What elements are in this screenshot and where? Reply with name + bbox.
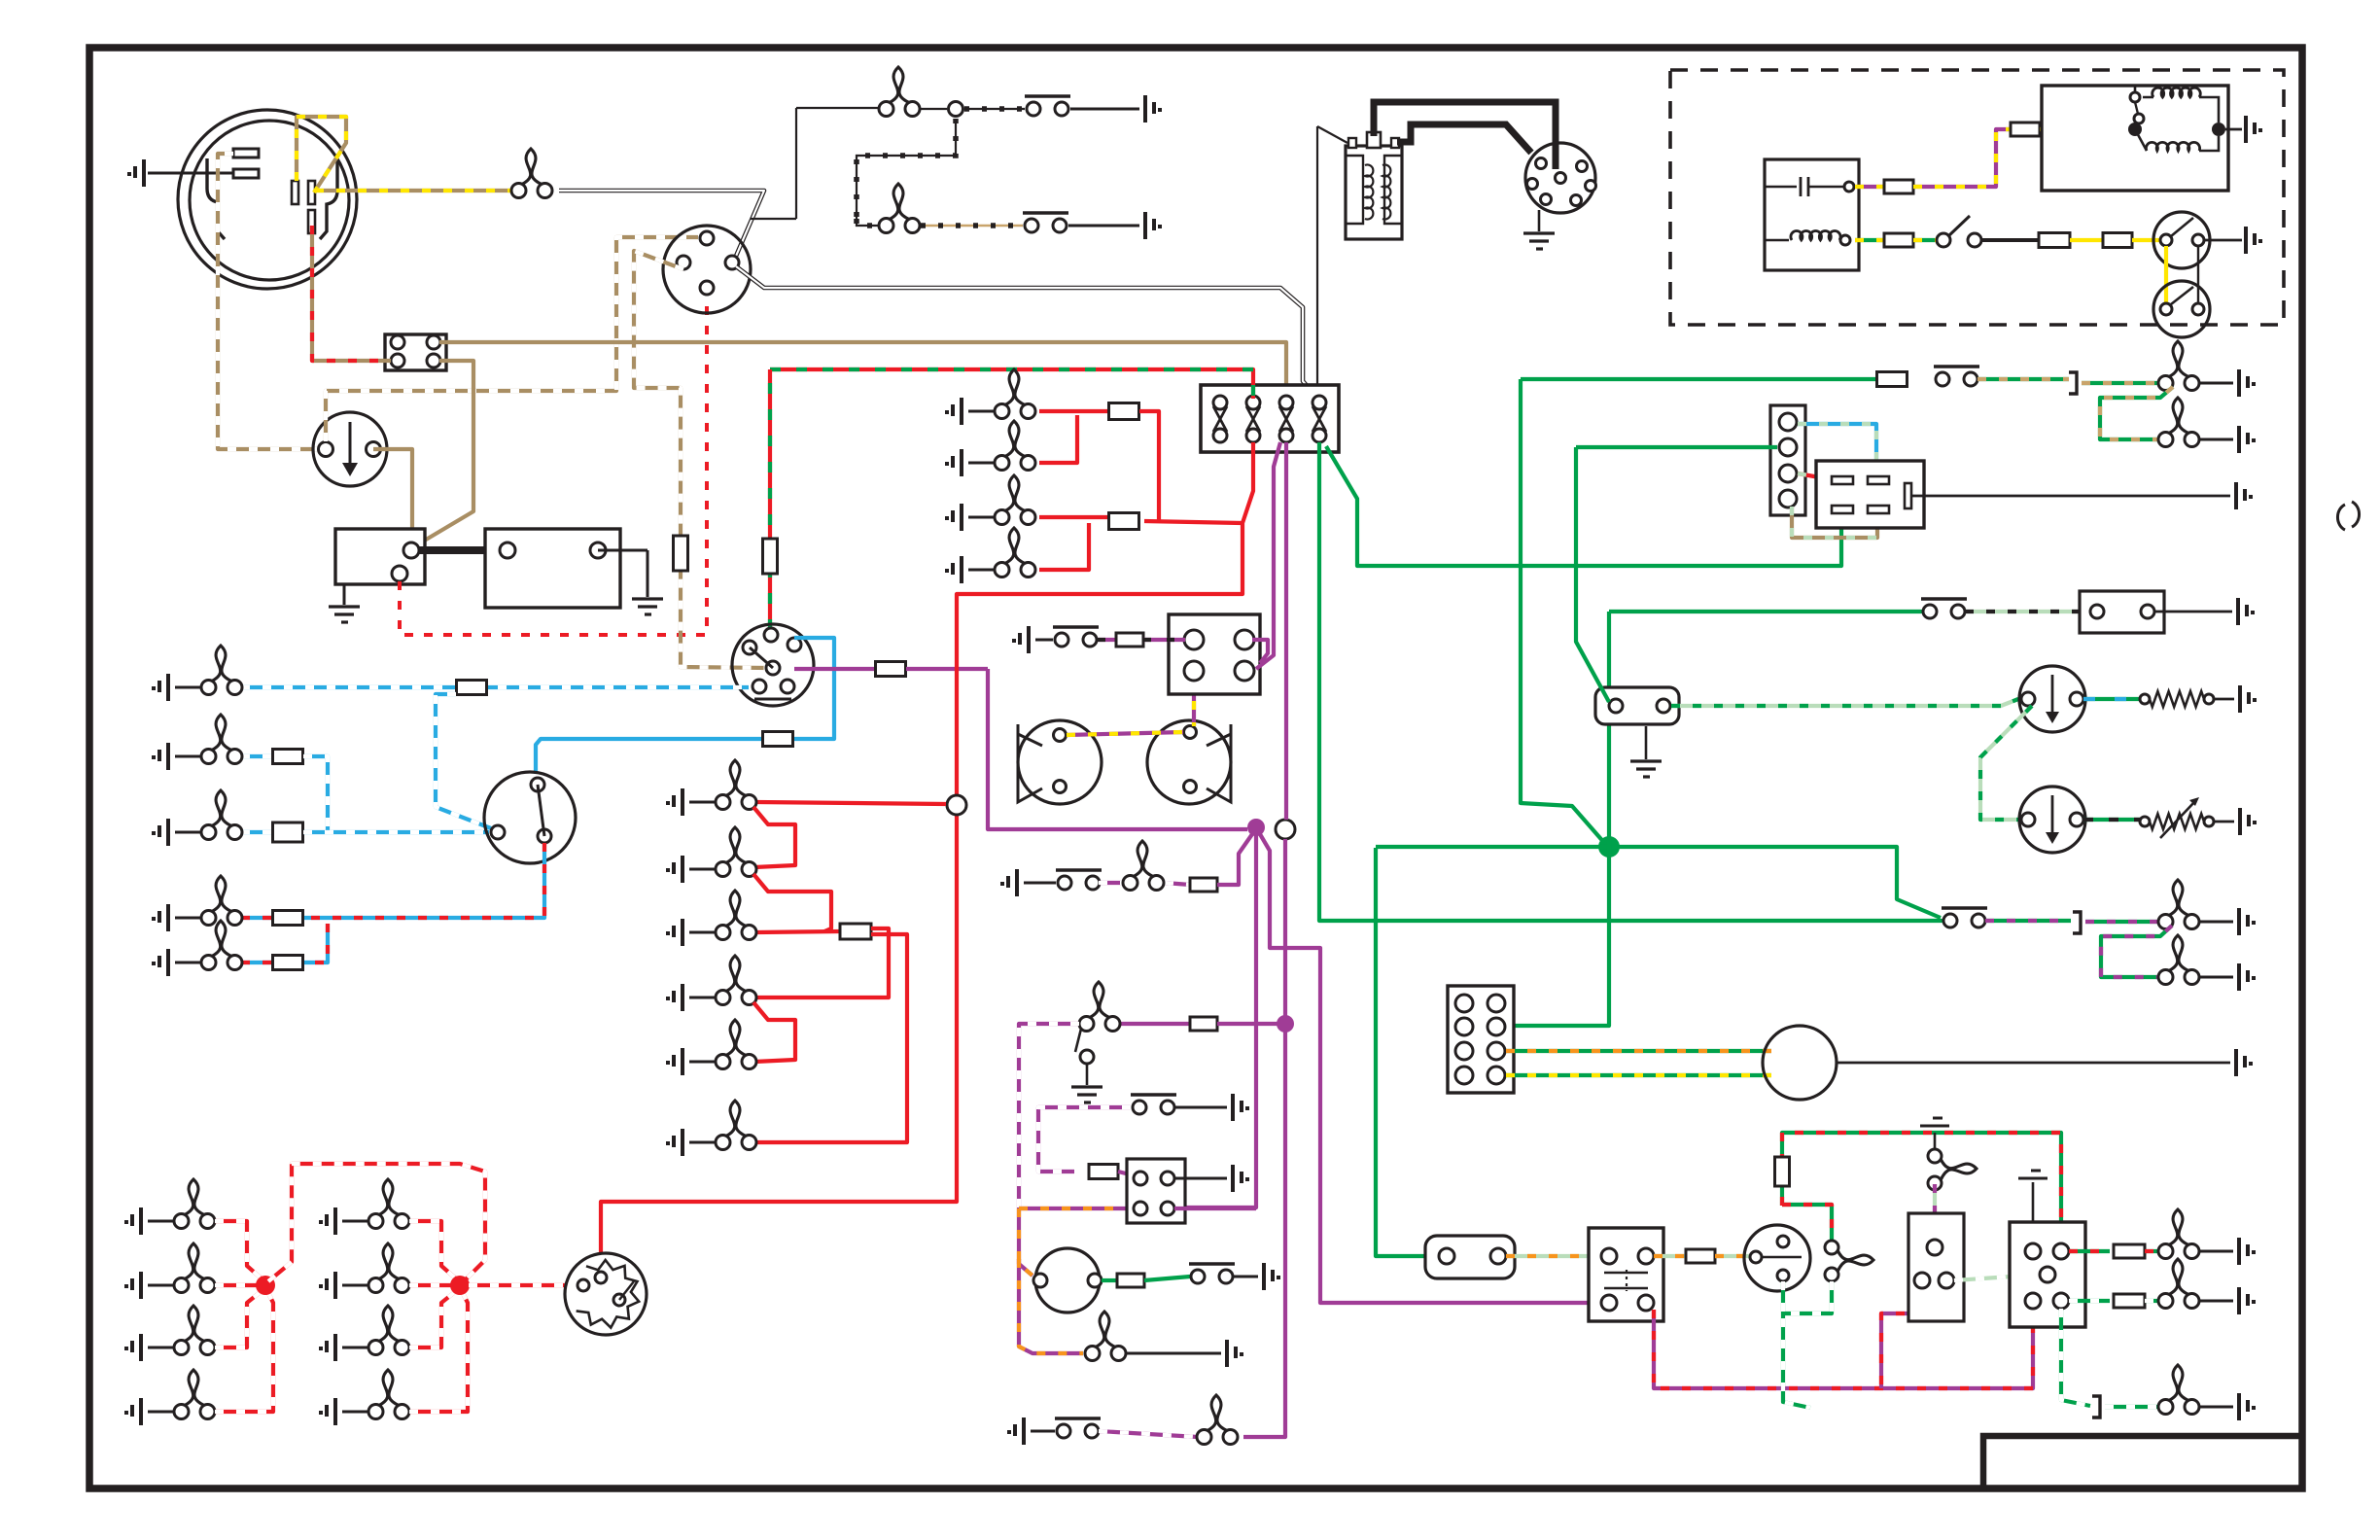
panel lamp 2 [716, 827, 756, 877]
flasher terminal left [577, 1279, 589, 1291]
wire P horn box jumper [1252, 640, 1268, 663]
wire R panel lamp 3 [756, 931, 840, 932]
warning lamp bottom [1085, 1312, 1126, 1361]
fuse horn feed [876, 662, 906, 677]
fuel tank unit terminals [2140, 694, 2150, 704]
connector pin 4 [427, 354, 440, 367]
ground flasher lamp group LH front LH [124, 1207, 141, 1235]
stop lamp switch body [1425, 1236, 1515, 1278]
wire G brake switch drop [1376, 848, 1425, 1256]
ground overdrive relay [2246, 116, 2262, 143]
horn RH [1207, 724, 1231, 802]
white wire coil lead bend [1314, 387, 1317, 397]
ground battery [632, 599, 663, 614]
flasher lamp group RH front LH [368, 1179, 409, 1229]
solenoid terminal main [403, 542, 419, 558]
ground flasher lamp group RH rear LH [319, 1272, 335, 1299]
wire P wiper switch to trunk [1174, 1207, 1256, 1210]
wire NY to ignition warning lamp [315, 189, 518, 192]
boot lamp switch [1055, 1418, 1101, 1438]
wire G fuse to switch [1144, 1277, 1190, 1280]
wire Y od [2070, 238, 2103, 242]
stop lamp RH [995, 421, 1035, 471]
wire PW map light branch [1038, 1107, 1131, 1172]
wire PW interior switch to lamp [1099, 881, 1124, 885]
temperature gauge body [2019, 787, 2085, 853]
connector pin 1 [391, 335, 404, 349]
ground distributor [1523, 233, 1555, 249]
battery earth lead [598, 549, 647, 552]
connector pin 3 [391, 354, 404, 367]
battery earth stem [647, 550, 649, 597]
dynamo brush bar 1 [292, 181, 298, 204]
wire B oil lamp to switch [964, 108, 1025, 110]
fuse side lamps [457, 681, 487, 695]
lead panel lamp 5 [689, 1061, 716, 1064]
flasher relay terminal [1832, 506, 1853, 513]
wire NW ignition to lighting switch [634, 251, 767, 668]
white wire warning lamp to ignition switch [559, 191, 764, 261]
fuel pump contacts [1934, 367, 1979, 386]
wire W tap to oil lamp [751, 218, 796, 220]
fuse overdrive 1 [1884, 180, 1913, 193]
lead headlamp dip RH [175, 962, 201, 964]
stop relay pins [1601, 1248, 1617, 1264]
dip switch terminal top [531, 778, 544, 791]
ammeter terminal left [319, 442, 333, 457]
temp sender resistor [2150, 814, 2204, 829]
fuse headlamp RH [273, 822, 303, 842]
ground panel lamp 4 [666, 984, 682, 1011]
od upper terminals [2160, 234, 2172, 246]
flasher lamp group LH front LH [174, 1179, 215, 1229]
wire P fuse to wiper switch [1118, 1172, 1130, 1174]
wire R stop lamp RH [1039, 415, 1077, 463]
connector block right [1770, 405, 1805, 515]
solenoid terminal switch [392, 566, 407, 581]
stabilizer terminals [1609, 699, 1623, 713]
wire RW flasher lamp group RH row3 [409, 1291, 456, 1347]
connector pilot lamps [2073, 912, 2081, 933]
distributor terminal 7 [1556, 173, 1566, 184]
gearbox switch top lead [1765, 186, 1797, 189]
oil gauge switch [1921, 599, 1967, 618]
wire P courtesy feed [1120, 1022, 1190, 1026]
ignition switch terminal left [677, 256, 690, 269]
wire R panel lamp 2-3 chain [753, 874, 831, 931]
dir switch earth stem [2032, 1182, 2035, 1222]
flasher lamp group RH front RH [368, 1306, 409, 1355]
ground wiper switch [1233, 1165, 1249, 1192]
gear switch box [1908, 1213, 1964, 1321]
od unit link [2197, 247, 2199, 302]
interior lamp switch [1056, 870, 1102, 890]
wire Y od2 [2132, 238, 2160, 242]
wire GW fuse to lamp2 [2145, 1299, 2160, 1303]
ammeter terminal right [367, 442, 381, 457]
gearbox switch bottom lead [1765, 239, 1789, 242]
wire GR fuse to lamp [2145, 1249, 2160, 1253]
wire NB fuel lamp to switch [921, 225, 1023, 227]
lead reverse lamp [2199, 1406, 2233, 1409]
lead tail lamp LH [968, 516, 995, 519]
fuse horn [1116, 633, 1143, 647]
ground flasher lamp group LH front RH [124, 1334, 141, 1361]
horn LH terminals [1054, 729, 1067, 742]
junction snap connector [949, 102, 963, 117]
oil pressure switch [1025, 96, 1070, 116]
ground bottom switch [1007, 1417, 1024, 1445]
fuse low beam LH [273, 911, 303, 926]
flasher relay terminal [1868, 476, 1889, 484]
wire P interior lamp feed [1165, 883, 1190, 885]
title block notch [1983, 1436, 2299, 1491]
headlamp LH dip [201, 876, 242, 926]
wire R fuse1 out [1139, 411, 1159, 521]
connector pin 2 [427, 335, 440, 349]
flasher lamp group RH rear LH [368, 1243, 409, 1293]
lead map switch earth [1175, 1106, 1227, 1109]
wire R tail lamp RH [1039, 523, 1089, 570]
ground warning lamp [1227, 1340, 1243, 1367]
wire W oil lamp lead [796, 107, 886, 109]
indicator lamp 2 [2158, 1259, 2199, 1309]
lead oil unit earth [2154, 611, 2232, 613]
courtesy lamp [1079, 982, 1120, 1032]
wire GP bracket to lamp [2085, 920, 2160, 924]
reverse lamp [2158, 1365, 2199, 1415]
wire PB horn button to fuse [1098, 638, 1116, 642]
ground starter switch [1264, 1263, 1280, 1290]
dynamo body inner [190, 121, 349, 280]
ground panel switch [1145, 212, 1162, 239]
wiper motor body [1763, 1026, 1837, 1100]
wire UW headlamp row3 to dip switch [303, 830, 489, 834]
ground flasher lamp group RH front RH [319, 1334, 335, 1361]
junction green [1598, 836, 1620, 857]
stop relay box [1589, 1228, 1663, 1321]
wire NW ammeter to ignition switch [326, 237, 698, 441]
fuel gauge needle [2051, 675, 2054, 716]
door switch contact [1080, 1050, 1094, 1064]
lead flasher lamp group RH rear LH [342, 1284, 368, 1287]
wire PY fuse to relay [1913, 129, 2011, 187]
lead horn button [1035, 639, 1053, 642]
gearbox capacitor [1801, 177, 1808, 196]
ground headlamp dip LH [152, 904, 168, 931]
fuse overdrive 5 [2103, 233, 2132, 248]
wire RW flasher feed [469, 1283, 577, 1287]
wire PW courtesy loop [1019, 1024, 1079, 1208]
wire RW flasher bus [268, 1164, 485, 1281]
wire UR lamp stub row4 [241, 916, 274, 920]
connector fuel pump [2069, 372, 2077, 394]
lead wiper switch earth [1174, 1177, 1227, 1180]
wiper connector pin L [1455, 1018, 1473, 1035]
wire UW flasher relay blue [1798, 424, 1876, 472]
od upper lever [2171, 218, 2193, 236]
flasher unit resistor arc [577, 1260, 640, 1328]
lead stop lamp LH [968, 410, 995, 413]
flasher lamp group RH rear RH [368, 1370, 409, 1419]
wire GB temp to sender [2083, 818, 2141, 822]
ground plate lamp 2 [2239, 426, 2256, 453]
lead flasher lamp group RH front LH [342, 1220, 368, 1223]
wire RW flasher lamp group LH row1 [215, 1221, 263, 1280]
horn connector pin [1235, 630, 1254, 649]
flasher terminal top [595, 1272, 607, 1283]
lead pilot lamp LH [2199, 976, 2233, 979]
wire NW dynamo D to ammeter [218, 154, 321, 449]
lead panel lamp 4 [689, 997, 716, 999]
wire GY wiper feed 2 [1506, 1073, 1771, 1077]
wire LGN stop switch to relay [1506, 1254, 1601, 1258]
flasher lamp group LH rear RH [174, 1370, 215, 1419]
ammeter needle [349, 422, 352, 469]
side lamp LH [201, 646, 242, 695]
fuel tank unit resistor [2150, 691, 2204, 707]
ground panel lamp 2 [666, 856, 682, 883]
wire UR lamp stub row5 [241, 961, 274, 964]
wire UW headlamp row2 to junction [303, 756, 328, 832]
wire od switch to fuse [1981, 238, 2040, 242]
ignition switch terminal top [700, 231, 714, 245]
lead headlamp dip LH [175, 917, 201, 920]
lead stop lamp RH [968, 462, 995, 465]
fuel gauge body [2019, 666, 2085, 732]
horn LH [1018, 724, 1042, 802]
ground flasher relay [2236, 482, 2253, 509]
starter cable solenoid-battery [411, 546, 507, 554]
overdrive manual switch [1937, 233, 1950, 247]
relay earth lead [2225, 128, 2242, 131]
junction purple courtesy [1277, 1015, 1294, 1032]
oil pressure unit box [2080, 591, 2164, 633]
ground indicator lamp 2 [2239, 1287, 2256, 1314]
overdrive relay wire bottom [2135, 129, 2219, 151]
stop relay contact bars [1604, 1273, 1648, 1288]
ground headlamp LH [152, 743, 168, 770]
dynamo body outer [178, 110, 357, 289]
ignition coil secondary winding [1382, 164, 1390, 219]
wire UR low beam branch [303, 924, 328, 962]
wire G starter to fuse [1102, 1278, 1116, 1282]
lead panel lamp 1 [689, 801, 716, 804]
wiper connector pin R [1487, 1042, 1505, 1060]
wire LGG fuel to temp gauge [1980, 706, 2032, 820]
wiper switch box [1127, 1159, 1185, 1223]
wire UW headlamp feed row2 [241, 754, 288, 758]
solenoid earth stem [343, 584, 346, 605]
lead bottom switch [1031, 1430, 1055, 1433]
ignition switch terminal bottom [700, 281, 714, 295]
horn connector pin [1184, 661, 1204, 681]
lead flasher lamp group RH rear RH [342, 1411, 368, 1414]
fuse dir lamp 2 [2114, 1294, 2145, 1308]
fuse courtesy lamp [1190, 1017, 1217, 1031]
fuse headlamp LH [273, 750, 303, 764]
od solenoid contact [1762, 1256, 1802, 1258]
wire GP pilot to bracket [1985, 919, 2071, 923]
wire PO warning lamp feed [1019, 1259, 1083, 1353]
ground plate lamp 1 [2239, 369, 2256, 397]
fuel gauge lamp [879, 184, 920, 233]
ground tank unit [2240, 685, 2257, 713]
distributor earth stem [1538, 210, 1541, 231]
ground indicator lamp 1 [2239, 1238, 2256, 1265]
wire G vertical branch [1576, 447, 1609, 702]
flasher lamp group LH rear LH [174, 1243, 215, 1293]
white wire coil lead vertical [1316, 126, 1318, 387]
lead interior switch [1024, 882, 1056, 885]
wire NY dynamo field loop [297, 117, 346, 192]
lead plate lamp 1 [2199, 382, 2233, 385]
dip switch lever [538, 785, 544, 836]
temp sender arrow [2160, 801, 2195, 838]
door switch earth stem [1086, 1064, 1089, 1085]
starter switch terminals [1033, 1274, 1047, 1287]
fuse starter [1117, 1274, 1144, 1287]
wire R panel lamp 2 chain [753, 807, 795, 867]
dip switch terminal bottom-right [538, 829, 551, 843]
wire GW od solenoid earthside [1783, 1281, 1832, 1408]
wire PY horn link [1067, 732, 1183, 735]
fuse cartridge 1 [1213, 406, 1227, 432]
wire LGN relay to solenoid fuse [1654, 1254, 1686, 1258]
ground door switch [1071, 1087, 1102, 1102]
right connector pin [1779, 490, 1797, 507]
lead tank unit earth [2214, 698, 2234, 701]
number plate lamp 1 [2158, 341, 2199, 391]
wire RW flasher lamp group LH row2 [215, 1283, 258, 1287]
flasher relay terminal [1868, 506, 1889, 513]
fuse low beam RH [273, 956, 303, 970]
temperature gauge needle [2051, 795, 2054, 836]
ground stop lamp LH [945, 398, 962, 425]
wire P to connector and horns [906, 667, 988, 671]
interior lamp [1123, 841, 1164, 891]
ground stabilizer [1630, 761, 1662, 777]
wire PR gear switch link [1881, 1288, 1922, 1388]
lead flasher lamp group LH rear LH [148, 1284, 174, 1287]
flasher unit body [565, 1253, 647, 1335]
wire UW dip feed branch [436, 694, 491, 828]
wire PO wiper switch feed [1019, 1207, 1133, 1210]
wire GW bracket to lamp3 [2105, 1405, 2160, 1409]
wiper connector pin R [1487, 995, 1505, 1012]
panel lamp 6 [716, 1101, 756, 1150]
lead indicator lamp 2 [2199, 1300, 2233, 1303]
ground pilot lamp RH [2239, 908, 2256, 935]
tail lamp RH [995, 528, 1035, 577]
ground flasher lamp group RH front LH [319, 1207, 335, 1235]
flasher relay bar [1905, 483, 1911, 508]
lead headlamp RH [175, 831, 201, 834]
wire oil switch to earth [1070, 108, 1139, 111]
panel lamp 1 [716, 760, 756, 810]
horn RH terminals [1184, 726, 1197, 739]
overdrive relay winding 2 [2146, 142, 2199, 151]
distributor body [1525, 143, 1595, 213]
wire G fusebox drop A [1319, 442, 1942, 921]
white wire coil lead top [1317, 126, 1347, 143]
wire RW flasher lamp group LH row3 [215, 1291, 262, 1347]
wire GR main to fusebox [770, 369, 1253, 399]
wire PY gearbox to relay [1855, 185, 1883, 189]
tail lamp LH [995, 475, 1035, 525]
ground od trunk bars [1920, 1118, 1949, 1126]
dir switch pins [2025, 1243, 2041, 1259]
gearbox switch top lead2 [1808, 186, 1845, 189]
dynamo pole shoe right [320, 160, 337, 239]
wire P trunk jog [1260, 834, 1602, 1303]
overdrive relay switch contact [2130, 92, 2140, 102]
white wire ignition switch to fuse A4 [736, 266, 1314, 395]
wire G fuel pump row [1521, 377, 1876, 381]
overdrive inset dashed box [1670, 70, 2284, 325]
od lower lever [2171, 287, 2193, 304]
ground overdrive unit [2246, 227, 2262, 254]
indicator lamp 1 [2158, 1209, 2199, 1259]
lead wiper motor earth [1837, 1062, 2230, 1065]
ground panel lamp 5 [666, 1048, 682, 1075]
overdrive relay winding 1 [2152, 87, 2201, 97]
ammeter body [313, 412, 387, 486]
overdrive relay switch lever [2135, 102, 2138, 114]
wire R panel lamp 4-5 chain [753, 1002, 795, 1062]
wire N brown main feed bus [439, 342, 1286, 398]
distributor terminal 3 [1527, 179, 1538, 190]
dynamo terminal F [233, 169, 259, 178]
flasher pilot switch [1942, 908, 1987, 927]
wire LGG stabilizer to fuel gauge [1671, 699, 2018, 706]
od solenoid terminals [1750, 1251, 1762, 1263]
ignition switch terminal right [725, 256, 739, 269]
ground horn button [1012, 626, 1029, 653]
wire od unit to earth [2205, 239, 2242, 242]
fuse tail lamps [1109, 513, 1139, 530]
wire GY fuse3 to switch [1913, 238, 1937, 242]
wire U lighting to dipswitch [536, 638, 834, 774]
wire GN plate lamp branch [2100, 387, 2173, 439]
battery box [485, 529, 620, 608]
wire R panel lamp 1 [756, 802, 946, 804]
wire RW flasher lamp group LH row4 [215, 1293, 273, 1412]
wire LGP gear lamp to switch [1933, 1184, 1937, 1241]
wire R fuse1 link [1144, 521, 1242, 523]
wire GN pump to bracket [1977, 377, 2069, 381]
wire RW flasher lamp group RH row1 [409, 1221, 458, 1280]
panel lamp 4 [716, 956, 756, 1005]
lighting switch body [732, 624, 814, 706]
ground flasher lamp group RH rear RH [319, 1398, 335, 1425]
battery terminal positive [500, 542, 515, 558]
wire P trunk B down [1243, 839, 1285, 1437]
junction snap red trunk [947, 795, 966, 815]
ground headlamp RH [152, 819, 168, 846]
dynamo brush bar 3 [308, 210, 315, 233]
lead flasher lamp group LH rear RH [148, 1411, 174, 1414]
overdrive manual switch lever [1949, 216, 1970, 235]
horn RH body [1147, 720, 1231, 804]
fuse box [1201, 385, 1339, 452]
gearbox switch top terminal [1844, 182, 1854, 192]
wire W oil lamp riser [795, 108, 797, 219]
wire GW dir to lamp2 [2069, 1299, 2110, 1303]
wire RW flasher relay red [1798, 473, 1825, 478]
wire R tail lamp LH [1039, 515, 1108, 519]
wire G to right connector [1576, 445, 1777, 449]
